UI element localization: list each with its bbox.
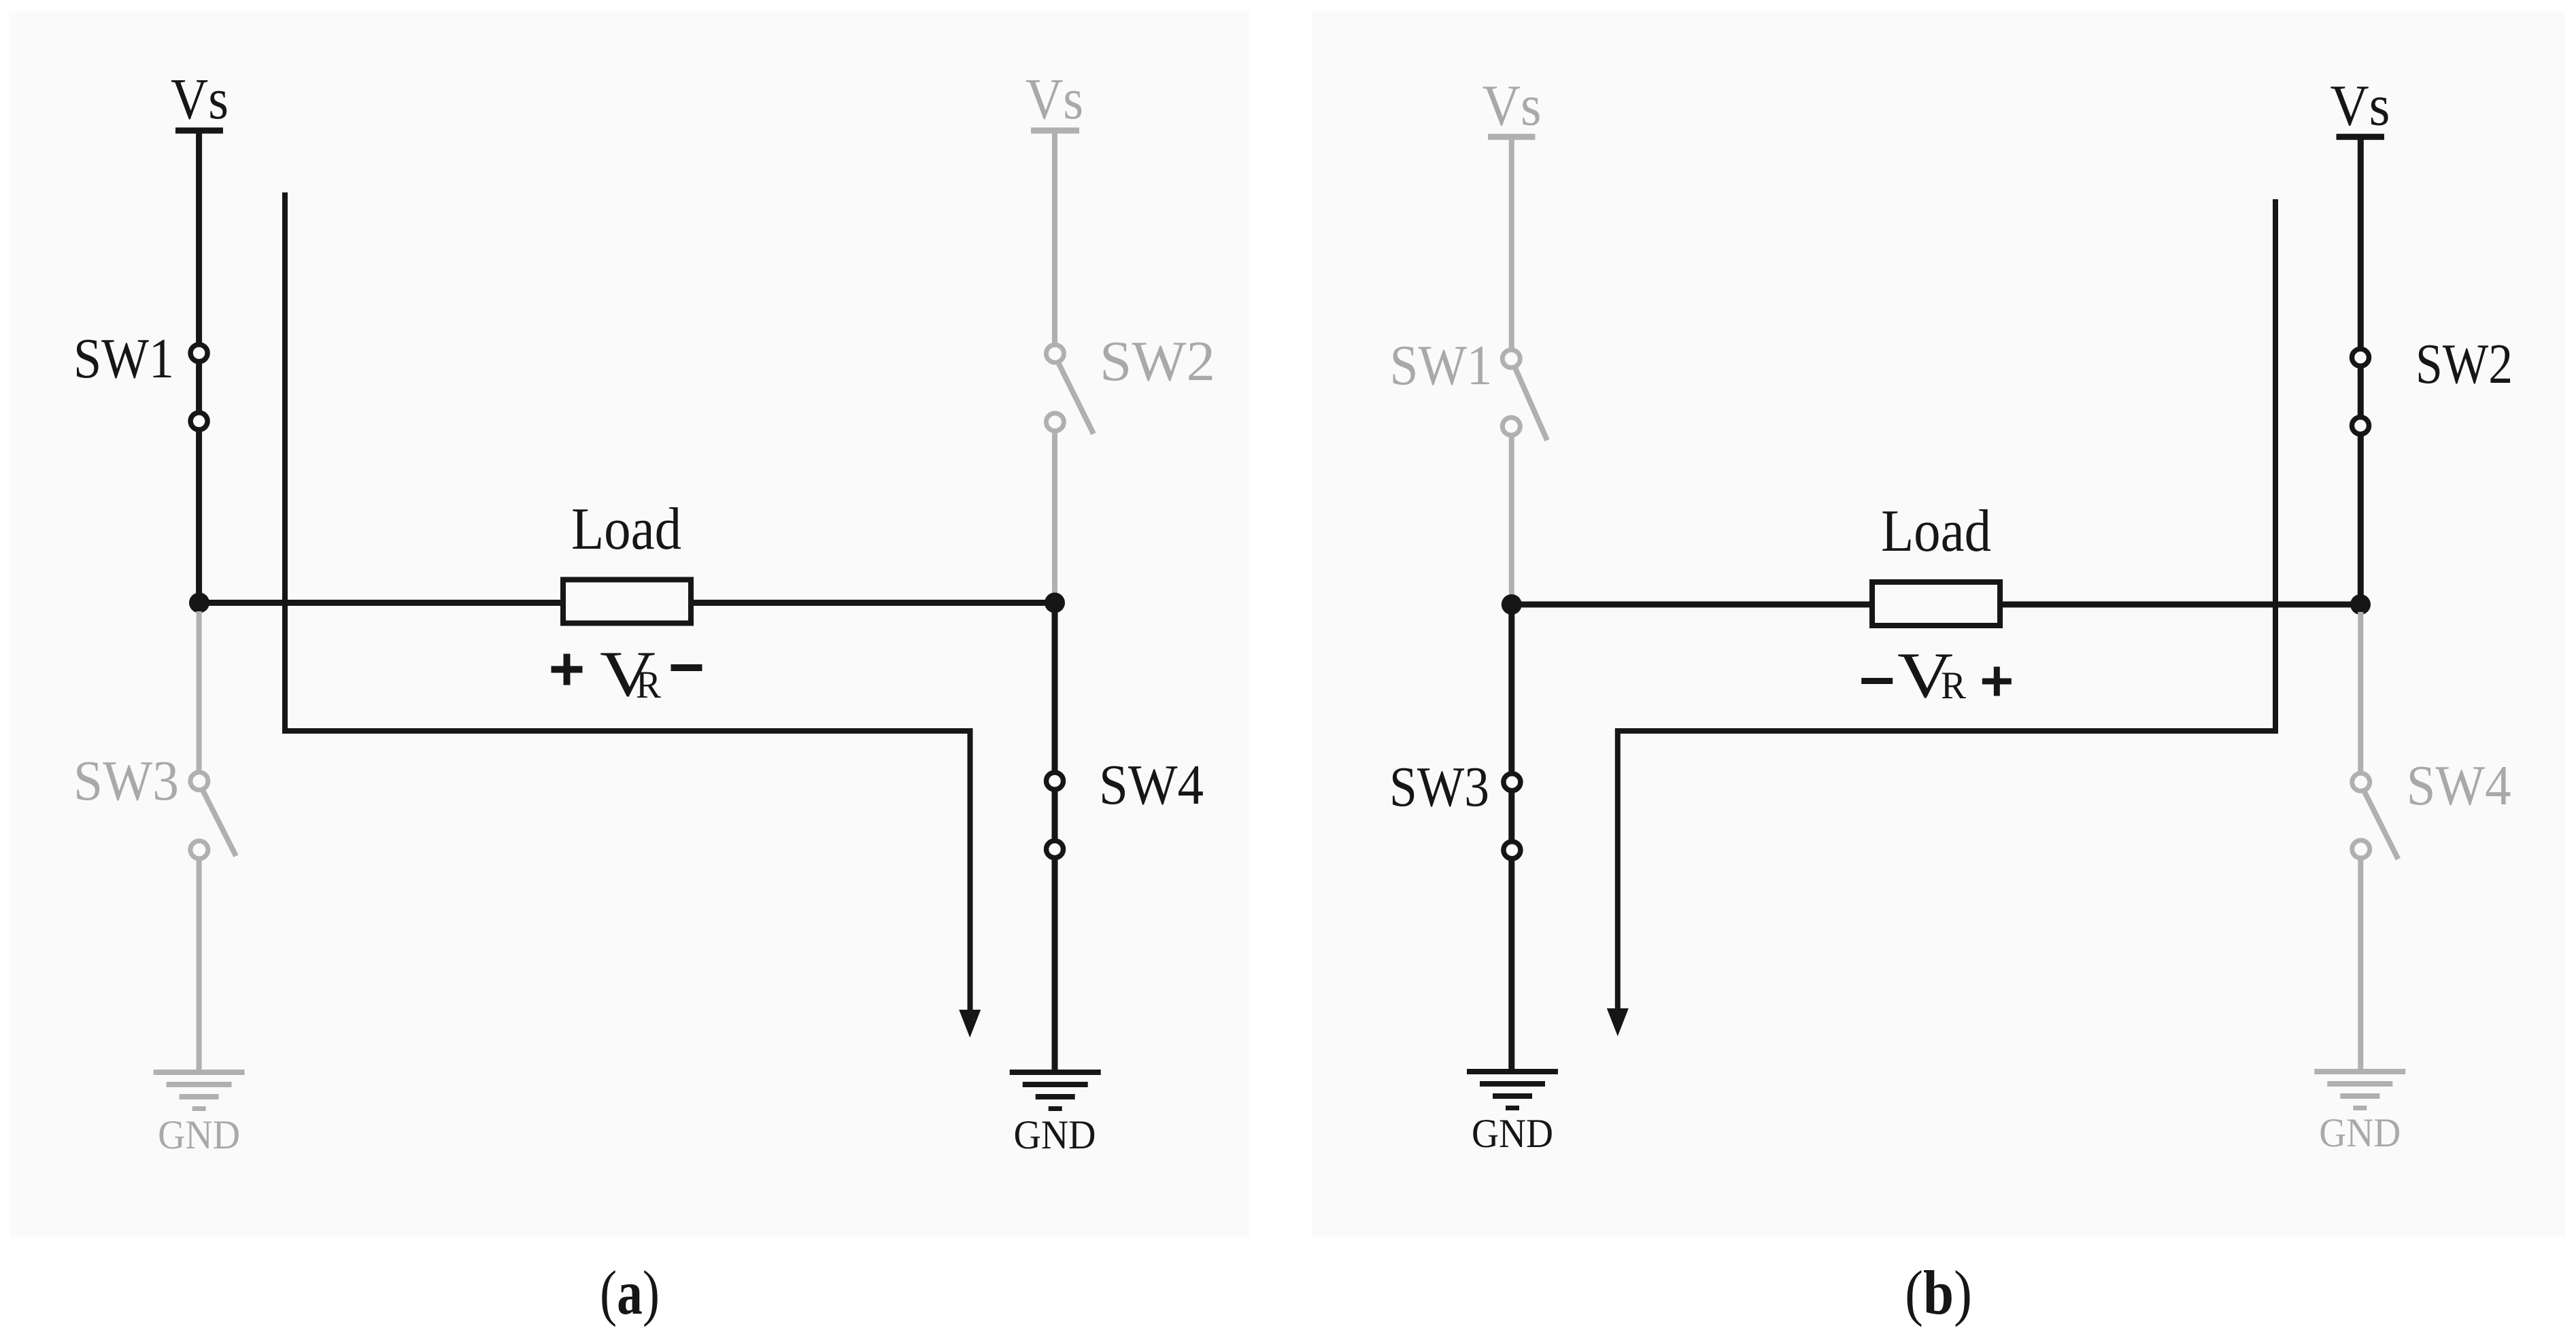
svg-text:Vs: Vs bbox=[1026, 66, 1083, 131]
svg-text:Vs: Vs bbox=[1482, 73, 1542, 138]
svg-text:Load: Load bbox=[1881, 498, 1991, 564]
svg-text:SW4: SW4 bbox=[1099, 753, 1204, 817]
svg-text:(b): (b) bbox=[1905, 1258, 1972, 1327]
svg-text:GND: GND bbox=[2319, 1110, 2401, 1155]
svg-text:Vs: Vs bbox=[2331, 73, 2390, 138]
svg-text:R: R bbox=[636, 664, 661, 706]
svg-text:SW2: SW2 bbox=[1100, 330, 1215, 393]
svg-text:SW3: SW3 bbox=[73, 749, 179, 813]
svg-text:SW1: SW1 bbox=[73, 327, 174, 390]
svg-text:SW2: SW2 bbox=[2416, 332, 2513, 396]
svg-text:SW3: SW3 bbox=[1389, 755, 1489, 819]
svg-text:GND: GND bbox=[158, 1112, 240, 1157]
svg-text:Load: Load bbox=[571, 496, 681, 562]
svg-text:GND: GND bbox=[1014, 1112, 1096, 1157]
svg-text:(a): (a) bbox=[600, 1258, 660, 1327]
svg-text:Vs: Vs bbox=[171, 66, 228, 131]
svg-text:SW1: SW1 bbox=[1390, 334, 1493, 397]
svg-text:GND: GND bbox=[1472, 1111, 1553, 1156]
svg-text:R: R bbox=[1941, 664, 1966, 707]
svg-text:SW4: SW4 bbox=[2407, 754, 2511, 817]
